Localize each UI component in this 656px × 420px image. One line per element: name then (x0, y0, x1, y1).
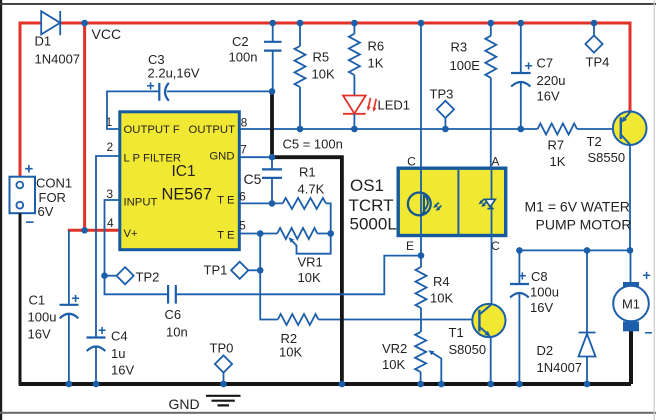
svg-text:+: + (518, 268, 526, 284)
wire VCC branch to pin 4 (red) (68, 23, 120, 230)
svg-text:+: + (147, 78, 155, 94)
wire C2 top (272, 23, 274, 42)
test point TP4 (585, 20, 609, 70)
svg-text:100E: 100E (450, 58, 481, 73)
svg-text:C5: C5 (244, 171, 262, 187)
resistor R7 (538, 124, 621, 170)
node LED1 bottom (351, 126, 358, 133)
node VR2 wiper ground (438, 381, 445, 388)
svg-text:S8050: S8050 (449, 342, 487, 357)
wire pin 6 stub (240, 202, 283, 204)
node R1/VR1 junction (327, 230, 334, 237)
ground GND symbol (169, 396, 241, 412)
wire C3 to node (167, 90, 272, 92)
svg-text:10K: 10K (382, 357, 405, 372)
wire pin 1 to C3 (107, 91, 159, 129)
svg-text:1N4007: 1N4007 (537, 360, 583, 375)
svg-text:C5 = 100n: C5 = 100n (283, 137, 343, 152)
node C7 bottom (518, 126, 525, 133)
svg-text:+: + (25, 161, 34, 178)
node T1 emitter ground (487, 381, 494, 388)
svg-text:A: A (491, 155, 499, 169)
svg-text:TP1: TP1 (204, 263, 228, 278)
svg-text:C: C (407, 155, 416, 169)
svg-text:10K: 10K (279, 345, 302, 360)
wire CON1 minus to ground rail (black) (19, 213, 22, 384)
motor M1 (613, 250, 652, 340)
node C8 ground (516, 381, 523, 388)
wire T1 emitter to ground (490, 337, 492, 384)
svg-text:C4: C4 (111, 329, 128, 344)
svg-text:4.7K: 4.7K (298, 182, 325, 197)
svg-text:5: 5 (239, 219, 246, 233)
test point TP2 (101, 267, 159, 284)
svg-text:M1: M1 (622, 297, 640, 312)
wire T2 collector (629, 145, 631, 251)
label motor note (525, 199, 632, 233)
svg-text:V+: V+ (124, 228, 139, 240)
node VCC (81, 20, 121, 42)
wire OS1 to T1 collector (491, 236, 493, 306)
svg-text:VCC: VCC (92, 26, 122, 42)
svg-text:GND: GND (169, 396, 200, 412)
svg-text:T2: T2 (587, 134, 602, 149)
potentiometer VR2 (382, 332, 441, 384)
svg-text:C8: C8 (531, 269, 548, 284)
svg-text:TP3: TP3 (430, 87, 454, 102)
capacitor C1 (28, 290, 80, 384)
svg-text:OUTPUT: OUTPUT (189, 124, 236, 136)
svg-text:16V: 16V (530, 300, 553, 315)
svg-text:R6: R6 (368, 39, 385, 54)
svg-text:6V: 6V (38, 204, 54, 219)
diode D1 (35, 11, 81, 67)
pin 4 (107, 216, 114, 230)
svg-text:16V: 16V (28, 327, 51, 342)
svg-text:TP2: TP2 (136, 270, 160, 285)
svg-text:10K: 10K (298, 270, 321, 285)
LED LED1 (343, 96, 410, 114)
node R5 top (297, 20, 304, 27)
svg-text:1K: 1K (368, 56, 384, 71)
node OS1 wire top (418, 20, 425, 27)
diode D2 (537, 250, 596, 384)
node pin 6 junction (269, 200, 276, 207)
svg-text:+: + (643, 267, 651, 283)
svg-text:R5: R5 (313, 50, 330, 65)
svg-text:7: 7 (240, 143, 247, 157)
svg-text:TP0: TP0 (210, 341, 234, 356)
capacitor C7 (511, 23, 565, 129)
wire OS1 collector from rail (420, 23, 422, 168)
wire ground rail (black) (19, 382, 631, 386)
capacitor C3 (147, 52, 200, 101)
pin 8 (241, 116, 248, 130)
resistor R4 (416, 236, 454, 332)
test point TP3 (430, 87, 455, 133)
transistor T2 S8550 (587, 111, 647, 165)
svg-text:220u: 220u (537, 73, 566, 88)
svg-text:+: + (525, 58, 533, 74)
potentiometer VR1 (277, 228, 331, 285)
svg-text:T E: T E (217, 230, 235, 242)
svg-text:10K: 10K (312, 67, 335, 82)
op-amp IC1 NE567 (120, 112, 240, 250)
wire pin 3 to C6 (105, 200, 169, 294)
svg-text:M1 = 6V WATER: M1 = 6V WATER (525, 199, 630, 215)
svg-text:TP4: TP4 (586, 55, 610, 70)
wire pin 2 to C4 (96, 156, 120, 338)
resistor R1 (283, 165, 331, 234)
wire motor return (black) (629, 331, 633, 385)
svg-text:100u: 100u (530, 285, 559, 300)
wire pin 5 stub (240, 233, 278, 235)
capacitor C5 (244, 157, 283, 203)
wire pin 7 stub (240, 156, 271, 158)
svg-text:10n: 10n (166, 325, 188, 340)
svg-text:C1: C1 (29, 293, 46, 308)
resistor R2 (278, 314, 480, 360)
pin 3 (106, 187, 113, 201)
svg-text:GND: GND (209, 151, 234, 163)
svg-text:C6: C6 (165, 307, 182, 322)
svg-text:+: + (72, 290, 80, 306)
svg-text:−: − (645, 325, 653, 341)
pin 5 (239, 219, 246, 233)
svg-text:5000L: 5000L (350, 215, 397, 234)
node R3 top (488, 20, 495, 27)
test point TP0 (210, 341, 234, 388)
svg-text:C: C (491, 239, 500, 253)
svg-text:T1: T1 (449, 325, 464, 340)
svg-text:+: + (98, 322, 106, 338)
svg-text:1K: 1K (550, 154, 566, 169)
svg-text:8: 8 (241, 116, 248, 130)
wire pin5 node down to R2 (260, 234, 278, 320)
wire LED1 cathode (353, 114, 355, 129)
resistor R6 (349, 23, 384, 95)
svg-text:1u: 1u (111, 346, 125, 361)
svg-text:PUMP MOTOR: PUMP MOTOR (536, 217, 632, 233)
svg-text:R7: R7 (548, 138, 565, 153)
svg-text:10K: 10K (430, 291, 453, 306)
svg-text:4: 4 (107, 216, 114, 230)
node C4 ground (93, 381, 100, 388)
node VR2 ground (417, 381, 424, 388)
svg-text:2: 2 (106, 140, 113, 154)
wire C2 bottom (272, 51, 274, 90)
svg-text:1N4007: 1N4007 (35, 52, 81, 67)
svg-text:R4: R4 (433, 274, 450, 289)
svg-text:LED1: LED1 (378, 98, 411, 113)
connector CON1 (10, 161, 73, 232)
svg-text:−: − (26, 214, 35, 231)
pin 2 (106, 140, 113, 154)
svg-text:6: 6 (239, 190, 246, 204)
wire VCC rail (red) (20, 23, 630, 177)
capacitor C2 (229, 34, 282, 65)
node V+ junction (81, 227, 88, 234)
svg-text:IC1: IC1 (172, 163, 196, 180)
capacitor C4 (87, 322, 135, 384)
capacitor C6 (165, 285, 188, 340)
wire motor supply line (519, 249, 630, 251)
svg-text:R1: R1 (299, 165, 316, 180)
svg-text:16V: 16V (537, 89, 560, 104)
wire GND net thick black (270, 90, 343, 385)
svg-text:D1: D1 (35, 34, 52, 49)
node T2/M1 junction (627, 247, 634, 254)
svg-text:VR1: VR1 (298, 255, 323, 270)
svg-text:OUTPUT F: OUTPUT F (124, 124, 180, 136)
test point TP1 (204, 262, 264, 279)
svg-text:T E: T E (217, 195, 235, 207)
wire C6 to sensor node (176, 256, 421, 295)
wire output line pin 8 (240, 128, 538, 130)
svg-text:FOR: FOR (39, 190, 66, 205)
svg-text:D2: D2 (537, 343, 554, 358)
node R5 bottom (297, 126, 304, 133)
opto sensor OS1 TCRT5000L (349, 155, 506, 254)
capacitor C8 (510, 250, 559, 384)
pin 6 (239, 190, 246, 204)
transistor T1 S8050 (449, 304, 506, 357)
node D2 ground (584, 381, 591, 388)
node R6 top (351, 20, 358, 27)
node C3/C2 junction (269, 88, 276, 95)
wire V+ to C1 (68, 230, 70, 304)
svg-text:TCRT: TCRT (349, 196, 394, 215)
node sensor emitter junction (418, 252, 425, 259)
svg-text:NE567: NE567 (162, 186, 212, 204)
node pin 7 junction (269, 154, 276, 161)
svg-text:E: E (406, 239, 414, 253)
node C7 top (518, 20, 525, 27)
node C8 top (516, 247, 523, 254)
node D2 top (584, 247, 591, 254)
svg-text:R3: R3 (451, 40, 468, 55)
svg-text:C7: C7 (537, 56, 554, 71)
svg-text:C2: C2 (232, 34, 249, 49)
svg-text:3: 3 (106, 187, 113, 201)
svg-text:OS1: OS1 (350, 176, 384, 195)
svg-text:VR2: VR2 (382, 341, 407, 356)
svg-text:CON1: CON1 (36, 176, 72, 191)
svg-text:INPUT: INPUT (124, 197, 158, 209)
node pin 5 junction (257, 230, 264, 237)
svg-text:100n: 100n (229, 50, 258, 65)
pin 1 (106, 115, 113, 129)
svg-text:16V: 16V (111, 363, 134, 378)
resistor R3 (450, 23, 497, 168)
node GND net junction (339, 381, 346, 388)
node C1 ground (66, 381, 73, 388)
node C2 rail (269, 20, 276, 27)
svg-text:S8550: S8550 (588, 150, 626, 165)
svg-text:2.2u,16V: 2.2u,16V (148, 66, 200, 81)
pin 7 (240, 143, 247, 157)
svg-text:100u: 100u (28, 310, 57, 325)
resistor R5 (295, 23, 335, 129)
